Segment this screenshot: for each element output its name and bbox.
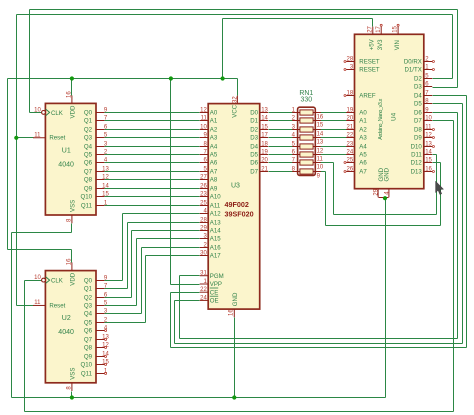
wire U2 Q1 to U3 A13 [128,222,200,224]
wire +5V to U3 VCC [237,79,239,96]
junction GND/U2 VSS [70,395,74,399]
svg-text:22: 22 [347,133,354,139]
RN1 resistor element 8 [300,169,313,174]
U3 pin A11 [200,205,209,207]
svg-text:U1: U1 [62,147,71,154]
wire +5V to U2 VDD [8,249,72,251]
RN1 resistor element 1 [300,110,313,115]
U3 pin A0 [200,112,209,114]
U4 pin D4 [424,95,432,97]
wire +5V left drop [7,79,9,250]
svg-text:A12: A12 [210,211,221,218]
RN1 pin 11 [313,154,321,156]
svg-text:4: 4 [384,191,390,195]
svg-text:15: 15 [425,158,432,164]
wire +5V to U3 VPP horizontal [171,284,200,286]
counter U2 4040 body [45,271,96,383]
U3 pin A1 [200,120,209,122]
svg-text:4040: 4040 [58,329,74,336]
svg-text:A7: A7 [210,169,218,176]
junction RESET/U1 [14,136,18,140]
wire U2 Q2 riser [131,231,133,298]
svg-text:Q6: Q6 [84,328,93,335]
svg-text:D4: D4 [250,144,258,151]
U1 pin Q8 [96,179,104,181]
wire U2 Q2 to U3 A14 [132,230,200,232]
U4 pin D8 [424,129,432,131]
RN1 pin 7 [292,162,300,164]
wire RN1 pin14 to U4 A2 [321,129,347,131]
svg-text:D6: D6 [250,160,258,167]
RN1 resistor element 5 [300,144,313,149]
wire U3 D3 to RN1 pin4 [269,137,293,139]
svg-text:14: 14 [317,131,324,137]
svg-text:VSS: VSS [70,368,77,380]
svg-text:A15: A15 [210,236,221,243]
RN1 pin 16 [313,112,321,114]
svg-text:Q10: Q10 [80,362,92,369]
svg-text:D8: D8 [414,127,422,134]
svg-text:D5: D5 [414,101,422,108]
wire CE to D4 stub [433,95,467,97]
U3 pin A10 [200,196,209,198]
svg-text:A4: A4 [359,144,367,151]
U4 pin GND 4 [388,189,390,198]
unconnected marker U4 A7 [344,171,346,173]
U4 pin A3 [346,137,354,139]
U3 pin OE [200,299,209,301]
U3 pin A6 [200,162,209,164]
svg-text:10: 10 [200,125,207,131]
svg-text:D12: D12 [411,160,423,167]
svg-text:A11: A11 [210,203,221,210]
U4 pin D10 [424,146,432,148]
svg-text:14: 14 [102,184,109,190]
U2 Reset pin stub [33,304,45,306]
svg-text:28: 28 [347,57,354,63]
unconnected marker U4 AREF [344,95,346,97]
U4 pin D1/TX [424,69,432,71]
U2 pin Q11 [96,373,104,375]
U2 pin Q6 [96,330,104,332]
svg-text:Reset: Reset [49,302,65,309]
wire RN1 pin13 to U4 A3 [321,137,347,139]
U4 pin D12 [424,162,432,164]
U2 pin Q2 [96,297,104,299]
svg-text:A9: A9 [210,186,218,193]
U4 pin GND 29 [377,189,379,198]
U4 pin RESET [346,69,354,71]
svg-text:11: 11 [34,300,41,306]
svg-text:10: 10 [317,164,324,170]
unconnected marker U2 Q7 [105,339,107,341]
unconnected marker U2 Q8 [105,347,107,349]
svg-text:13: 13 [261,108,268,114]
svg-text:VSS: VSS [70,200,77,212]
svg-text:Q7: Q7 [84,169,93,176]
wire OE drop [174,301,176,344]
svg-text:Q5: Q5 [84,320,93,327]
wire GND left rail [11,233,13,398]
mouse cursor [436,181,444,194]
U2 VDD pin [71,262,73,270]
svg-text:GND: GND [383,167,390,181]
svg-text:11: 11 [34,132,41,138]
U4 pin A2 [346,129,354,131]
wire U2 Q4 to U3 A16 [142,247,200,249]
wire PGM riser to D6 [457,113,459,339]
U3 pin A5 [200,154,209,156]
U4 pin D6 [424,112,432,114]
wire U2 Q3 out [105,305,137,307]
wire PGM drop [179,276,181,339]
U4 pin D7 [424,120,432,122]
wire D12 riser [440,163,442,226]
U2 pin Q7 [96,339,104,341]
svg-text:A17: A17 [210,253,221,260]
U2 pin Q4 [96,313,104,315]
wire GND bottom rail [12,397,386,399]
wire +5V to U1 VDD [71,79,73,96]
wire RN1.9 drop [325,172,327,226]
U1 pin Q11 [96,205,104,207]
svg-text:12: 12 [200,108,207,114]
U3 pin A2 [200,129,209,131]
RN1 pin 5 [292,146,300,148]
svg-text:A0: A0 [359,110,367,117]
U2 pin Q5 [96,322,104,324]
wire CE riser to D4 [466,96,468,348]
U4 pin A1 [346,120,354,122]
svg-text:Q2: Q2 [84,295,93,302]
svg-text:Q2: Q2 [84,127,93,134]
svg-text:A3: A3 [210,135,218,142]
U1 Reset pin stub [33,137,45,139]
wire CLK1 top horizontal [30,9,458,11]
U2 pin Q3 [96,305,104,307]
U4 pin D5 [424,103,432,105]
svg-text:A13: A13 [210,220,221,227]
wire U1 Q0 to U3 A0 [105,112,200,114]
svg-text:D2: D2 [250,127,258,134]
U4 pin 3V3 [380,27,382,35]
flash U3 49F002 body [208,104,260,310]
wire RESET right drop to D2 [452,15,454,79]
svg-text:A2: A2 [210,127,218,134]
svg-text:15: 15 [261,125,268,131]
svg-text:15: 15 [102,192,109,198]
svg-text:19: 19 [261,150,268,156]
wire OE to D5 stub [433,103,463,105]
U1 VSS pin [71,215,73,223]
svg-text:11: 11 [317,156,324,162]
wire U2 Q2 out [105,297,132,299]
U2 pin Q8 [96,347,104,349]
svg-text:A4: A4 [210,144,218,151]
U1 pin Q7 [96,171,104,173]
wire U2 Q1 out [105,288,128,290]
U1 CLK pin bubble [42,111,46,115]
svg-text:13: 13 [102,335,109,341]
svg-text:18: 18 [347,91,354,97]
svg-text:U2: U2 [62,315,71,322]
svg-text:11: 11 [425,125,432,131]
svg-text:31: 31 [200,271,207,277]
wire U1 Q1 to U3 A1 [105,120,200,122]
RN1 pin 13 [313,137,321,139]
svg-text:Q11: Q11 [81,371,93,378]
svg-text:10: 10 [425,116,432,122]
wire CLK1 right drop to D3 [457,10,459,88]
svg-text:20: 20 [347,116,354,122]
RN1 pin 1 [292,112,300,114]
RN1 resistor element 2 [300,118,313,123]
svg-text:26: 26 [200,184,207,190]
svg-text:15: 15 [317,122,324,128]
svg-text:12: 12 [102,343,109,349]
wire U3 D7 to RN1 pin8 [269,171,293,173]
wire OE riser to D5 [462,104,464,344]
svg-text:CLK: CLK [51,278,63,285]
svg-text:27: 27 [367,25,373,32]
svg-text:Q0: Q0 [84,278,93,285]
svg-text:GND: GND [232,292,239,306]
RN1 pin 2 [292,120,300,122]
U3 pin A12 [200,213,209,215]
U3 pin A13 [200,222,209,224]
svg-text:20: 20 [261,158,268,164]
U4 pin AREF [346,95,354,97]
RN1 pin 9 [313,171,321,173]
unconnected marker U2 Q11 [105,373,107,375]
wire U1 Q7 to U3 A7 [105,171,200,173]
RN1 pin 10 [313,162,321,164]
unconnected marker U4 D1/TX [432,69,434,71]
svg-text:A1: A1 [359,118,367,125]
svg-text:14: 14 [425,150,432,156]
U1 pin Q9 [96,188,104,190]
svg-text:D1: D1 [250,118,258,125]
svg-text:29: 29 [374,188,380,195]
svg-text:A10: A10 [210,194,221,201]
svg-text:A7: A7 [359,169,367,176]
svg-text:A6: A6 [359,160,367,167]
RN1 pin 8 [292,171,300,173]
U4 pin D11 [424,154,432,156]
wire RN1 pin15 to U4 A1 [321,120,347,122]
U4 pin D13 [424,171,432,173]
svg-text:Q10: Q10 [80,194,92,201]
RN1 resistor element 4 [300,135,313,140]
U4 pin D0/RX [424,61,432,63]
wire PGM horizontal [180,338,458,340]
RN1 pin 3 [292,129,300,131]
RN1 resistor element 3 [300,127,313,132]
svg-text:9: 9 [317,173,321,179]
svg-text:16: 16 [66,91,72,98]
svg-text:10: 10 [34,107,41,113]
U1 pin Q1 [96,120,104,122]
svg-text:18: 18 [261,142,268,148]
wire to D11 stub [433,154,437,156]
svg-text:RESET: RESET [359,67,380,74]
wire CLK2 to D7 stub [433,120,454,122]
U3 pin D5 [260,154,268,156]
U3 pin A14 [200,230,209,232]
svg-text:24: 24 [200,295,207,301]
wire GND U1 VSS left [12,232,72,234]
junction +5V/VPP [169,76,173,80]
svg-text:D10: D10 [411,144,423,151]
svg-text:VDD: VDD [70,105,77,118]
svg-text:D4: D4 [414,93,422,100]
RN1 pin 15 [313,120,321,122]
wire U3 D1 to RN1 pin2 [269,120,293,122]
wire U3 D4 to RN1 pin5 [269,146,293,148]
wire U2 Q4 out [105,313,142,315]
svg-text:16: 16 [229,309,235,316]
U3 pin A15 [200,238,209,240]
RN1 resistor element 6 [300,152,313,157]
svg-text:D2: D2 [414,76,422,83]
wire U2 Q1 riser [127,223,129,289]
wire U1 Q10 to U3 A10 [105,196,200,198]
wire RN1.9 out [321,171,326,173]
U4 pin +5V [372,27,374,35]
wire U2 Q3 to U3 A15 [137,238,200,240]
wire D11 riser [436,155,438,215]
wire GND Arduino pin tie [379,197,389,199]
svg-text:Q5: Q5 [84,152,93,159]
U1 CLK triangle [46,109,50,115]
svg-text:PGM: PGM [210,273,224,280]
svg-text:26: 26 [347,167,354,173]
svg-text:D9: D9 [414,135,422,142]
wire RESET left rail [16,15,18,306]
wire CLK1 to D3 stub [433,87,458,89]
svg-text:OE: OE [210,298,219,305]
RN1 pin 4 [292,137,300,139]
svg-text:A14: A14 [210,228,221,235]
U4 pin A7 [346,171,354,173]
wire U1 Q2 to U3 A2 [105,129,200,131]
U3 pin D4 [260,146,268,148]
U3 pin D1 [260,120,268,122]
wire CLK1 to U1 CLK [30,112,42,114]
svg-text:A3: A3 [359,135,367,142]
U2 CLK pin bubble [42,278,46,282]
U2 pin Q9 [96,356,104,358]
wire U2 Q0 riser [122,214,124,281]
svg-text:13: 13 [102,167,109,173]
svg-text:25: 25 [200,201,207,207]
svg-text:Q11: Q11 [81,203,93,210]
svg-text:15: 15 [102,360,109,366]
wire U1 Q6 to U3 A6 [105,162,200,164]
svg-text:D13: D13 [411,169,423,176]
svg-text:13: 13 [317,139,324,145]
svg-text:16: 16 [425,167,432,173]
svg-text:21: 21 [347,125,354,131]
wire U2 Q3 riser [136,239,138,306]
arduino U4 Nano body [355,34,424,188]
svg-text:32: 32 [232,96,238,103]
svg-text:D3: D3 [414,84,422,91]
svg-text:A1: A1 [210,118,218,125]
svg-text:10: 10 [34,275,41,281]
unconnected marker U4 RESET [344,69,346,71]
wire GND U3 drop [234,318,236,398]
wire OE out [175,300,200,302]
U1 pin Q4 [96,146,104,148]
wire GND U1 VSS drop [71,224,73,233]
svg-text:VDD: VDD [70,272,77,285]
wire U3 D6 to RN1 pin7 [269,162,293,164]
svg-text:D5: D5 [250,152,258,159]
svg-text:CE: CE [210,289,218,296]
svg-text:Q1: Q1 [84,286,93,293]
svg-text:22: 22 [200,287,207,293]
svg-text:24: 24 [347,150,354,156]
svg-text:23: 23 [347,142,354,148]
U4 pin A6 [346,162,354,164]
wire U2 Q5 to U3 A17 [146,255,200,257]
wire U2 Q5 riser [145,256,147,323]
wire CE drop [170,293,172,348]
U3 pin CE [200,291,209,293]
U3 VCC pin [236,96,238,104]
svg-text:21: 21 [261,167,268,173]
svg-text:13: 13 [425,142,432,148]
svg-text:D7: D7 [414,118,422,125]
wire U2 Q0 out [105,280,123,282]
svg-text:28: 28 [200,218,207,224]
wire U2 Q4 riser [141,248,143,314]
wire RESET to D2 stub [433,78,453,80]
U3 pin D7 [260,171,268,173]
wire RN1 pin16 to U4 A0 [321,112,347,114]
svg-text:Q6: Q6 [84,160,93,167]
wire to D12 stub [433,162,441,164]
wire CE out [171,292,200,294]
wire CLK2 left drop [24,281,26,412]
RN1 pin 14 [313,129,321,131]
svg-text:23: 23 [200,192,207,198]
U2 VSS pin [71,383,73,391]
U2 pin Q0 [96,280,104,282]
wire PGM out [180,275,200,277]
resistor network RN1 body [298,107,316,175]
svg-text:D6: D6 [414,110,422,117]
U4 pin A0 [346,112,354,114]
wire +5V drop from Arduino [222,19,224,79]
wire +5V top horizontal [223,18,373,20]
svg-text:Q8: Q8 [84,177,93,184]
wire RN1.9-D12 horizontal [326,225,441,227]
svg-text:Q8: Q8 [84,345,93,352]
wire RN1.10 drop [333,163,335,215]
svg-text:A0: A0 [210,110,218,117]
wire U3 D5 to RN1 pin6 [269,154,293,156]
wire U3 D2 to RN1 pin3 [269,129,293,131]
RN1 pin 12 [313,146,321,148]
svg-text:D7: D7 [250,169,258,176]
unconnected marker U4 D13 [432,171,434,173]
svg-text:VIN: VIN [394,40,401,50]
svg-text:A8: A8 [210,177,218,184]
U1 pin Q3 [96,137,104,139]
U4 pin D2 [424,78,432,80]
